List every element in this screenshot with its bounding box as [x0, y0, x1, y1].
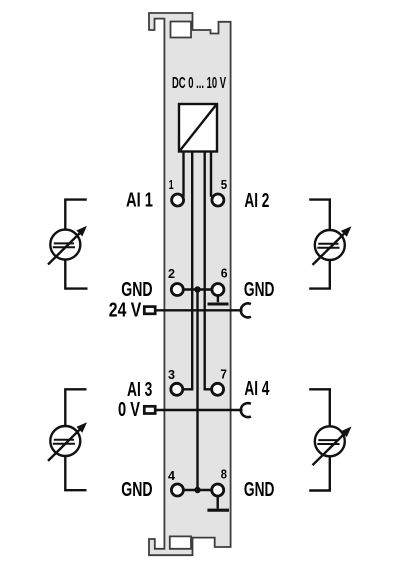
svg-text:5: 5 [221, 177, 227, 192]
svg-text:AI 2: AI 2 [244, 190, 269, 212]
adjustable DC source G4 (bottom right) [309, 389, 351, 490]
wire center bus [196, 290, 198, 491]
svg-text:7: 7 [220, 367, 227, 382]
wire converter to terminal 7 [205, 152, 212, 390]
wire converter to terminal 3 [184, 152, 193, 390]
svg-text:24 V: 24 V [109, 299, 142, 321]
svg-text:2: 2 [168, 266, 175, 281]
svg-text:3: 3 [168, 367, 175, 382]
A/D converter U1 [179, 104, 217, 152]
svg-text:8: 8 [221, 467, 227, 482]
svg-text:AI 3: AI 3 [127, 379, 152, 401]
terminal 5 [212, 194, 224, 206]
module body outline [149, 13, 231, 555]
terminal 7 [212, 383, 224, 395]
svg-text:GND: GND [121, 279, 152, 301]
svg-text:4: 4 [168, 468, 176, 483]
svg-text:1: 1 [169, 177, 174, 192]
svg-text:0 V: 0 V [118, 399, 140, 421]
wire terminal 4 to terminal 8 [182, 489, 213, 491]
svg-text:GND: GND [244, 279, 275, 301]
0V jumper contact [241, 403, 251, 417]
svg-text:GND: GND [244, 479, 275, 501]
0V supply plug [144, 406, 155, 413]
terminal 2 [171, 284, 183, 296]
wire 0V rail [156, 409, 243, 411]
terminal 4 [171, 484, 183, 496]
wire converter to terminal 5 [210, 152, 212, 197]
wire converter to terminal 1 [182, 152, 184, 197]
svg-text:GND: GND [121, 479, 152, 501]
svg-text:AI 1: AI 1 [126, 190, 153, 212]
terminal 8 [212, 484, 224, 496]
adjustable DC source G2 (bottom left) [48, 389, 87, 490]
adjustable DC source G3 (top right) [309, 200, 351, 289]
adjustable DC source G1 (top left) [48, 200, 88, 289]
ground at terminal 8 [207, 496, 229, 510]
terminal 6 [212, 284, 224, 296]
svg-text:DC 0 ... 10 V: DC 0 ... 10 V [172, 75, 226, 92]
junction dot node A [194, 286, 200, 292]
24V supply plug [144, 307, 155, 314]
ground at terminal 6 [208, 296, 229, 304]
svg-text:6: 6 [221, 266, 228, 281]
junction dot node B [194, 487, 200, 493]
wire 24V rail [156, 309, 243, 311]
terminal 3 [171, 383, 183, 395]
svg-text:AI 4: AI 4 [244, 378, 270, 400]
24V jumper contact [241, 303, 251, 317]
terminal 1 [172, 194, 184, 206]
wire terminal 2 to terminal 6 [182, 288, 213, 290]
